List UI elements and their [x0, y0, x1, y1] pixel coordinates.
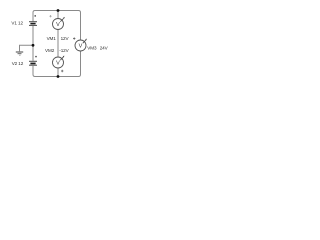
- svg-text:V: V: [56, 22, 60, 28]
- svg-text:VM1: VM1: [47, 36, 57, 41]
- svg-text:V: V: [79, 44, 83, 50]
- svg-text:V1 12: V1 12: [11, 20, 23, 25]
- svg-text:-12V: -12V: [59, 48, 69, 53]
- svg-text:VM2: VM2: [45, 48, 55, 53]
- svg-text:V2 12: V2 12: [12, 61, 24, 66]
- svg-text:12V: 12V: [61, 36, 70, 41]
- svg-text:V: V: [56, 61, 60, 67]
- svg-text:24V: 24V: [100, 46, 109, 51]
- svg-text:VM3: VM3: [87, 46, 97, 51]
